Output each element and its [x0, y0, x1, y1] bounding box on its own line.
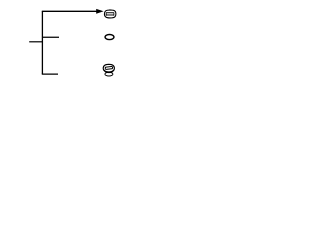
wire left stub [29, 41, 43, 43]
node C symbol (pot icon) [103, 64, 114, 76]
wire trunk (vertical) [41, 11, 43, 74]
node B symbol (ellipse) [105, 35, 114, 40]
arrow head [96, 9, 103, 14]
wire bottom branch [42, 73, 58, 75]
wire top branch [42, 10, 99, 12]
wire middle branch [42, 36, 59, 38]
node A symbol (striped drum icon) [104, 9, 116, 18]
